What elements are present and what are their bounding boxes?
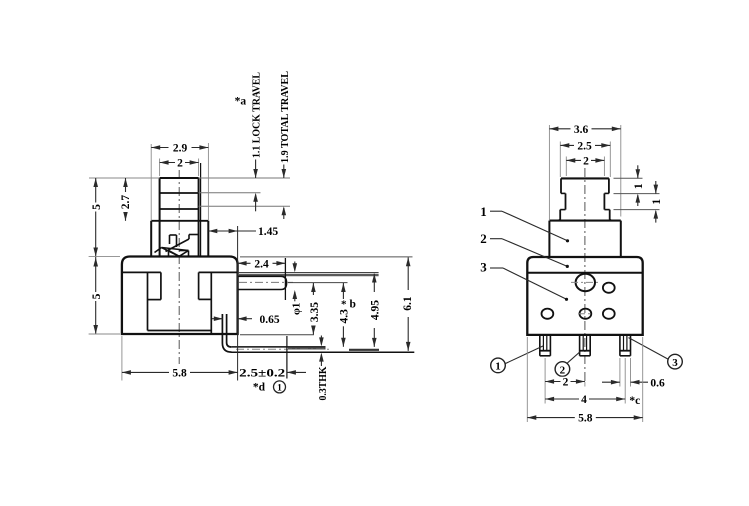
svg-text:4.3: 4.3 [339,309,351,324]
switch body (front view) [527,257,642,335]
small hole middle center [580,309,592,319]
circled terminal number 2 [555,362,570,377]
dim 3.6 [548,125,550,221]
terminal centerline [236,348,331,350]
svg-text:φ1: φ1 [290,303,302,315]
extension lines left [89,256,120,258]
svg-text:2: 2 [583,156,589,168]
svg-text:2: 2 [563,377,569,389]
terminal pin at x=579.6 [579,335,581,356]
6.1 top reference line [240,256,413,258]
plunger internal line 1 [160,192,199,194]
svg-text:2: 2 [177,158,183,170]
dim 0.65 [212,318,223,320]
dim 4 [545,398,625,400]
svg-text:2.9: 2.9 [173,143,188,155]
body internal bottom line [148,330,212,332]
big hole [576,274,595,291]
body seam line [527,272,642,274]
dim 0.6 [602,381,620,383]
body internal right cutout [199,271,238,273]
svg-text:*c: *c [629,395,640,407]
dim 2 (pins) [545,381,585,383]
upper flange [549,220,620,222]
dim 2.5 [559,142,561,178]
dim 5.8 bottom left view [121,336,123,381]
svg-text:1: 1 [633,183,645,189]
extension line 2.5 right [286,336,288,379]
reference line 3.35 bottom [240,334,314,336]
bent terminal (lower) [222,314,231,352]
dim 3.35 [312,283,314,295]
pin center extension lines [544,358,546,404]
switch body (side view) [122,257,238,335]
svg-text:1: 1 [651,199,663,205]
small hole middle right [603,309,615,319]
pin centerline [239,281,293,283]
plunger guide line right [200,163,202,257]
svg-text:*: * [341,299,347,311]
svg-text:2: 2 [480,231,487,246]
plunger shaft outline [160,177,199,179]
dim 1.1 lock travel [255,160,257,171]
centerline (left view vertical axis) [178,170,180,364]
small hole middle left [542,309,554,319]
svg-text:0.3THK: 0.3THK [317,366,329,400]
heart cam lock mechanism [170,234,177,236]
label 0.3THK [320,336,322,345]
svg-text:6.1: 6.1 [402,296,414,311]
shoulder of plunger [151,220,208,222]
extension line body right plane [237,226,239,381]
dim 2.7 [125,178,127,221]
far terminal edge [349,349,379,351]
center hole crossline [578,313,592,315]
dim 2.9 top [150,144,152,221]
terminal pin at x=619.9 [619,335,621,356]
body internal left cutout [122,271,161,273]
dim 1.9 total travel [283,165,285,171]
svg-text:1: 1 [480,204,487,219]
dim 2.4 [238,262,286,264]
dim 2 top [159,159,161,177]
hole centerline cross [571,281,600,283]
svg-text:0.6: 0.6 [650,377,665,389]
svg-text:b: b [350,299,356,311]
svg-text:2: 2 [560,364,566,376]
dim 4.3 *b [342,283,344,299]
svg-text:1: 1 [277,384,282,394]
svg-text:2.5±0.2: 2.5±0.2 [239,368,285,380]
svg-text:0.65: 0.65 [259,314,279,326]
extension line pin end 2.4 [284,258,286,300]
svg-text:3.6: 3.6 [574,124,589,136]
dim 5.8 (front view) [526,337,528,422]
centerline (right view vertical axis) [584,168,586,382]
terminal bottom long line [232,351,415,353]
terminal pin phi1 (side view, horizontal) [238,272,379,274]
svg-text:2.4: 2.4 [254,258,269,270]
svg-text:1: 1 [495,361,501,373]
svg-text:2.5: 2.5 [577,141,592,153]
push button (front view) [561,177,609,179]
svg-text:5: 5 [91,293,103,299]
svg-text:4.95: 4.95 [369,300,381,320]
svg-text:3.35: 3.35 [309,302,321,322]
modifier circled 1 [274,381,286,393]
terminal pin at x=539.8 [539,335,541,356]
svg-text:5.8: 5.8 [172,368,187,380]
dim 5 lower [95,257,97,335]
svg-text:*a: *a [235,96,247,108]
terminal horizontal top line [231,346,325,348]
dim 1 (upper step) [614,177,643,179]
dim phi1 [294,262,296,271]
terminal dark band near end [288,347,326,349]
svg-text:5: 5 [91,204,103,210]
svg-text:3: 3 [480,260,487,275]
circled terminal number 1 [491,358,506,373]
lock travel reference lines [89,177,160,179]
svg-text:*d: *d [253,381,266,393]
dim 4.95 [373,274,375,293]
svg-text:5.8: 5.8 [578,413,593,425]
svg-text:4: 4 [581,394,587,406]
plunger internal line 2 [160,208,199,210]
dim 1 (lower step) [655,181,657,186]
dim 1.45 [208,230,256,232]
dim 2 (button) [565,157,567,177]
dim 6.1 [407,257,409,290]
svg-text:2.7: 2.7 [120,195,132,210]
dim 5 upper [95,178,97,257]
svg-text:1.9 TOTAL TRAVEL: 1.9 TOTAL TRAVEL [280,71,291,163]
svg-text:1.1 LOCK TRAVEL: 1.1 LOCK TRAVEL [252,72,263,158]
svg-text:3: 3 [672,357,678,369]
svg-text:1.45: 1.45 [258,226,278,238]
circled terminal number 3 [668,354,683,369]
small hole top right [603,283,615,293]
pin center reference line [288,282,348,284]
